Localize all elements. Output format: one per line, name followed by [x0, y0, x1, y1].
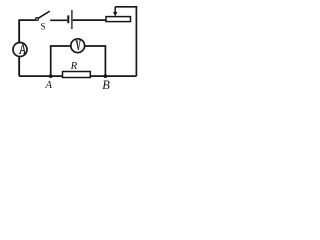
- resistor R body: [63, 72, 91, 78]
- svg-text:B: B: [102, 78, 110, 92]
- battery positive plate (long thin bar): [71, 10, 73, 29]
- junction node A: [49, 74, 53, 78]
- battery negative plate (short thick bar): [67, 15, 69, 23]
- svg-text:R: R: [70, 60, 78, 72]
- wire: voltmeter branch left leg from node A: [51, 46, 71, 76]
- switch S lever (open): [38, 12, 49, 19]
- wire: bottom rail (node A to node B run): [19, 75, 136, 77]
- switch S pivot terminal: [36, 18, 39, 21]
- ammeter A1 body: [13, 43, 27, 57]
- wire: voltmeter branch right leg to node B: [85, 46, 106, 76]
- rheostat slider arrowhead: [113, 12, 117, 17]
- wire: top rail from switch contact to battery: [50, 19, 67, 21]
- svg-text:S: S: [40, 23, 45, 33]
- wire: slider to top-right corner and right rail down: [115, 7, 136, 76]
- junction node B: [104, 74, 108, 78]
- rheostat slider arrow stem: [114, 7, 116, 13]
- wire: top rail left segment (top-left corner to switch pivot): [19, 20, 35, 76]
- svg-text:A: A: [44, 79, 52, 91]
- wire: top rail from battery to rheostat left terminal: [73, 19, 106, 21]
- voltmeter V1 body: [71, 39, 85, 53]
- rheostat body: [106, 17, 131, 22]
- ammeter letter A: [19, 44, 26, 54]
- voltmeter letter V: [75, 40, 80, 49]
- wire: left rail through ammeter position: [18, 20, 20, 76]
